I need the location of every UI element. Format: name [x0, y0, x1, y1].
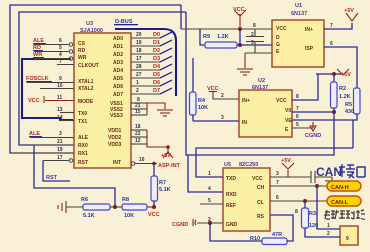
svg-text:1: 1: [208, 171, 211, 177]
power VCC above R9: [233, 7, 246, 29]
wire top inner loop (RXD net): [19, 12, 186, 145]
svg-text:RST: RST: [46, 175, 58, 181]
svg-text:AD3: AD3: [113, 60, 123, 66]
wire XTAL1 pin 9: [27, 76, 74, 83]
wire VSS3 pin 15: [131, 109, 147, 115]
svg-text:AD4: AD4: [113, 68, 123, 74]
node ALE2 label: [29, 131, 42, 137]
wire CANL pin 6: [270, 195, 327, 203]
node VCC label mode: [28, 96, 44, 104]
svg-text:28: 28: [136, 64, 142, 70]
svg-text:CAN-H: CAN-H: [331, 185, 349, 191]
wire VCC to U2 pin2: [213, 92, 239, 99]
wire VSS common: [147, 103, 165, 115]
svg-text:CAN-L: CAN-L: [331, 200, 349, 206]
svg-text:VSS3: VSS3: [110, 113, 123, 119]
svg-text:CGND: CGND: [172, 222, 188, 228]
resistor R10 47R: [250, 232, 287, 245]
bus D-BUS label: [114, 19, 138, 25]
svg-text:VCC: VCC: [252, 176, 263, 182]
svg-text:19: 19: [136, 40, 142, 46]
svg-text:VDD1: VDD1: [108, 128, 122, 134]
wire AD7 D7: [131, 88, 172, 94]
ground below C: [237, 53, 253, 75]
IC U3 SJA1000 CAN controller: [74, 21, 131, 168]
svg-text:AD7: AD7: [113, 92, 123, 98]
svg-text:82C250: 82C250: [239, 162, 258, 168]
svg-text:16: 16: [139, 157, 145, 163]
svg-text:R8: R8: [122, 197, 129, 203]
label terminal jumper chinese: [324, 210, 365, 219]
svg-text:5: 5: [59, 45, 62, 51]
svg-text:CLKOUT: CLKOUT: [78, 63, 99, 69]
wire RX0 pin 21: [34, 139, 74, 145]
svg-text:7: 7: [276, 180, 279, 186]
svg-text:G: G: [276, 42, 280, 48]
wire VDD3 pin 12: [131, 138, 147, 144]
svg-text:CAN: CAN: [316, 165, 342, 179]
svg-text:12: 12: [135, 138, 141, 144]
wire AD4 D4: [131, 64, 172, 70]
svg-text:U5: U5: [224, 162, 231, 168]
svg-text:5.1K: 5.1K: [83, 213, 95, 219]
svg-text:MODE: MODE: [78, 99, 94, 105]
svg-text:D4: D4: [153, 64, 161, 70]
svg-text:8: 8: [296, 94, 299, 100]
svg-text:19: 19: [57, 147, 63, 153]
svg-text:3: 3: [221, 115, 224, 121]
resistor R3 120 terminal: [302, 201, 341, 237]
svg-text:17: 17: [57, 155, 63, 161]
svg-text:7: 7: [59, 59, 62, 65]
svg-text:10K: 10K: [198, 105, 208, 111]
svg-text:4: 4: [208, 186, 211, 192]
wire GND down to R slope: [210, 223, 262, 241]
wire U2 pin5 gnd: [292, 122, 313, 128]
resistor R4 10K: [190, 58, 209, 121]
svg-text:CL: CL: [257, 200, 264, 206]
ground rotated left: [58, 201, 83, 213]
capacitor bypass at U5: [288, 171, 332, 183]
wire VDD1 pin 18: [131, 124, 147, 130]
svg-text:6N137: 6N137: [252, 85, 268, 91]
svg-text:VCC: VCC: [28, 98, 40, 104]
wire VSS1 pin 8: [131, 97, 147, 103]
pin number 6 U1: [330, 41, 333, 47]
node WR label: [33, 52, 44, 58]
node RD label: [33, 45, 43, 51]
svg-text:27: 27: [136, 72, 142, 78]
svg-text:IN+: IN+: [242, 98, 250, 104]
wire AD1 D1: [131, 40, 172, 46]
svg-text:WR: WR: [78, 55, 87, 61]
wire line A to U5 TXD: [196, 148, 353, 177]
resistor R9 1.2K: [200, 29, 272, 48]
svg-text:D: D: [276, 35, 280, 41]
wire VSS2 pin 21: [131, 103, 147, 109]
svg-text:2: 2: [251, 32, 254, 38]
wire XTAL2 pin 10: [40, 83, 74, 89]
svg-text:430: 430: [345, 109, 354, 115]
svg-text:TXD: TXD: [226, 176, 236, 182]
wire AD0 D0: [131, 32, 172, 38]
node RST label: [43, 161, 70, 182]
wire MODE pin 11: [45, 95, 74, 101]
svg-text:U1: U1: [295, 3, 302, 9]
resistor R7 5.1K: [151, 164, 171, 208]
wire U1 pin5 stub: [245, 52, 272, 54]
resistor R6 5.1K: [81, 197, 122, 219]
node CAN-L port oval: [327, 196, 361, 206]
wire AD3 D3: [131, 56, 172, 62]
svg-text:+5V: +5V: [281, 158, 291, 164]
wire line B to U5 RXD: [188, 112, 334, 155]
svg-text:D2: D2: [153, 48, 160, 54]
svg-text:6: 6: [296, 114, 299, 120]
svg-text:1.2K: 1.2K: [217, 34, 229, 40]
wire R slope to RS pin: [270, 209, 298, 241]
svg-text:10: 10: [57, 83, 63, 89]
svg-text:CGND: CGND: [305, 133, 321, 139]
svg-text:R9: R9: [203, 34, 210, 40]
wire RX1 pin 19: [11, 147, 74, 153]
bus horizontal and vertical: [115, 29, 176, 96]
node junction R9 bottom: [238, 43, 242, 47]
svg-text:1: 1: [136, 80, 139, 86]
svg-text:6: 6: [276, 195, 279, 201]
svg-text:17: 17: [136, 56, 142, 62]
svg-text:18: 18: [135, 124, 141, 130]
svg-text:ASP-INT: ASP-INT: [158, 163, 181, 169]
wire top outer loop (RX1 net): [10, 5, 181, 153]
svg-text:+5V: +5V: [341, 72, 351, 78]
svg-text:1: 1: [327, 223, 330, 229]
wire U1 pin6 to R5: [324, 47, 357, 88]
svg-text:15: 15: [135, 109, 141, 115]
svg-text:6: 6: [330, 41, 333, 47]
node junction R7 bottom: [152, 205, 156, 209]
svg-text:AD1: AD1: [113, 44, 123, 50]
wire TX0 pin 13: [57, 107, 74, 113]
svg-text:18: 18: [136, 48, 142, 54]
wire U2 pin8 to +5V rail: [292, 74, 318, 100]
svg-text:RS: RS: [257, 214, 265, 220]
wire REF pin 5: [200, 198, 223, 204]
svg-text:TX0: TX0: [78, 111, 87, 117]
pin number 3 U1: [251, 40, 254, 46]
svg-text:RXD: RXD: [226, 192, 237, 198]
svg-text:GND: GND: [226, 222, 238, 228]
power +5V at U5: [281, 158, 294, 177]
wire CANH pin 7: [270, 180, 327, 188]
svg-text:10K: 10K: [124, 213, 134, 219]
svg-text:R10: R10: [250, 236, 260, 242]
wire U2 pin6 output: [292, 114, 353, 120]
power VCC at U2: [207, 86, 219, 92]
ground at U5 vcc cap: [325, 177, 339, 187]
svg-text:120: 120: [309, 223, 318, 229]
svg-text:AD0: AD0: [113, 36, 123, 42]
svg-text:VE: VE: [285, 118, 292, 124]
svg-text:4: 4: [59, 52, 62, 58]
svg-text:RX1: RX1: [78, 151, 88, 157]
resistor R2 1.2K: [331, 74, 351, 112]
svg-text:+5V: +5V: [161, 153, 171, 159]
node ALE label: [33, 38, 46, 44]
svg-text:VCC: VCC: [276, 98, 287, 104]
wire vertical to U5 RXD: [186, 12, 223, 192]
svg-text:SJA1000: SJA1000: [80, 28, 103, 34]
power +5V mid: [161, 147, 173, 159]
pin number 2 U1: [251, 32, 254, 38]
svg-text:21: 21: [57, 139, 63, 145]
svg-text:REF: REF: [226, 203, 236, 209]
svg-text:5: 5: [296, 122, 299, 128]
svg-text:IN+: IN+: [305, 27, 313, 33]
svg-text:2: 2: [221, 93, 224, 99]
svg-text:TX1: TX1: [78, 119, 87, 125]
pin number 4 RXD: [208, 186, 211, 192]
svg-text:CS: CS: [78, 41, 86, 47]
svg-text:VCC: VCC: [148, 212, 160, 218]
wire VDD2 pin 22: [131, 131, 147, 137]
svg-text:+5V: +5V: [344, 8, 354, 14]
wire CS loop left: [22, 59, 73, 120]
svg-text:XTAL1: XTAL1: [78, 79, 94, 85]
svg-text:R6: R6: [81, 197, 88, 203]
svg-text:IN: IN: [242, 120, 247, 126]
node junction divider: [113, 205, 117, 209]
svg-text:AD6: AD6: [113, 84, 123, 90]
svg-text:22: 22: [135, 131, 141, 137]
node CAN-H port oval: [327, 181, 361, 191]
svg-text:INT: INT: [113, 160, 121, 166]
svg-text:RX0: RX0: [78, 143, 88, 149]
node CGND cap C8: [172, 219, 196, 228]
svg-text:R2: R2: [339, 86, 346, 92]
wire U2 pin7 to R2 bottom: [292, 106, 336, 114]
svg-text:U3: U3: [86, 21, 93, 27]
svg-text:7: 7: [296, 106, 299, 112]
svg-text:AD5: AD5: [113, 76, 123, 82]
resistor R5 430: [345, 88, 360, 148]
svg-text:6N137: 6N137: [291, 11, 307, 17]
wire WR to pin 4: [34, 52, 73, 60]
svg-text:AD2: AD2: [113, 52, 123, 58]
svg-text:3: 3: [251, 40, 254, 46]
power VCC right of divider: [148, 212, 160, 218]
svg-text:5: 5: [208, 198, 211, 204]
svg-text:D3: D3: [153, 56, 160, 62]
svg-text:6: 6: [59, 38, 62, 44]
svg-text:3: 3: [59, 131, 62, 137]
svg-text:VCC: VCC: [233, 7, 245, 13]
svg-text:2: 2: [136, 88, 139, 94]
wire U1 VCC feed vertical: [181, 5, 272, 29]
svg-text:ALE: ALE: [78, 135, 89, 141]
pin number 7 U1: [330, 23, 333, 29]
svg-text:20: 20: [136, 32, 142, 38]
capacitor C near U1: [246, 29, 264, 53]
node junction R9 top: [238, 27, 242, 31]
connector JP jumper: [340, 226, 358, 245]
wire AD6 D6: [131, 80, 172, 86]
svg-text:VCC: VCC: [276, 26, 287, 32]
svg-text:R4: R4: [198, 98, 206, 104]
svg-text:13: 13: [57, 107, 63, 113]
wire RST net down to divider: [34, 145, 115, 207]
op-amp U2 optocoupler 6N137: [239, 78, 292, 137]
resistor R8 10K: [122, 197, 154, 219]
wire VDD common to +5V: [147, 130, 170, 149]
svg-text:VDD3: VDD3: [108, 142, 122, 148]
node FOSCLK label: [26, 76, 52, 82]
ground CGND at U2: [305, 122, 321, 139]
node ASP-INT label: [158, 163, 181, 169]
svg-text:1.2K: 1.2K: [339, 94, 351, 100]
svg-text:ISP: ISP: [305, 46, 314, 52]
svg-text:U2: U2: [258, 78, 265, 84]
wire CANH to jumper pin1: [317, 186, 340, 229]
svg-text:47R: 47R: [272, 232, 282, 238]
wire CLKOUT pin 7: [57, 59, 74, 65]
ground VSS: [157, 110, 173, 116]
svg-text:11: 11: [57, 95, 63, 101]
svg-text:5.1K: 5.1K: [159, 187, 171, 193]
wire AD2 D2: [131, 48, 172, 54]
svg-text:D1: D1: [153, 40, 160, 46]
svg-text:CH: CH: [257, 185, 265, 191]
svg-text:R3: R3: [309, 211, 316, 217]
op-amp U1 optocoupler 6N137: [272, 3, 324, 67]
svg-text:2: 2: [327, 231, 330, 237]
svg-text:D6: D6: [153, 80, 160, 86]
wire GND pin 2: [197, 217, 223, 225]
svg-text:D7: D7: [153, 88, 160, 94]
wire RST pin 17: [43, 155, 73, 162]
svg-text:RST: RST: [78, 160, 88, 166]
wire +5V rail horizontal: [316, 72, 341, 76]
power +5V mid right: [337, 69, 351, 78]
pin number 1 TXD: [208, 171, 211, 177]
wire INT pin 16: [131, 157, 157, 165]
svg-text:8: 8: [253, 23, 256, 29]
wire ALE to pin 6: [34, 38, 73, 46]
IC U5 82C250 transceiver: [223, 162, 270, 231]
svg-text:9: 9: [59, 76, 62, 82]
svg-text:D0: D0: [153, 32, 160, 38]
svg-text:R5: R5: [345, 102, 352, 108]
svg-text:3: 3: [276, 171, 279, 177]
svg-text:8: 8: [295, 209, 298, 215]
svg-text:XTAL2: XTAL2: [78, 86, 94, 92]
svg-text:RD: RD: [78, 48, 86, 54]
wire TX to U2 pin3: [193, 115, 239, 121]
svg-text:14: 14: [57, 115, 63, 121]
svg-text:9: 9: [346, 236, 349, 242]
svg-text:D5: D5: [153, 72, 160, 78]
svg-text:R7: R7: [159, 180, 166, 186]
svg-text:VDD2: VDD2: [108, 135, 122, 141]
wire AD5 D5: [131, 72, 172, 78]
label CAN interface title: [316, 164, 365, 179]
svg-text:V0: V0: [285, 108, 291, 114]
wire TX1 pin 14: [57, 115, 74, 121]
wire U5 VCC pin 3: [270, 171, 288, 177]
wire ALE pin 3: [30, 131, 74, 138]
wire RD to pin 5: [34, 45, 73, 53]
svg-text:7: 7: [330, 23, 333, 29]
power +5V top right: [344, 8, 358, 21]
wire U1 out to +5V: [324, 23, 352, 29]
